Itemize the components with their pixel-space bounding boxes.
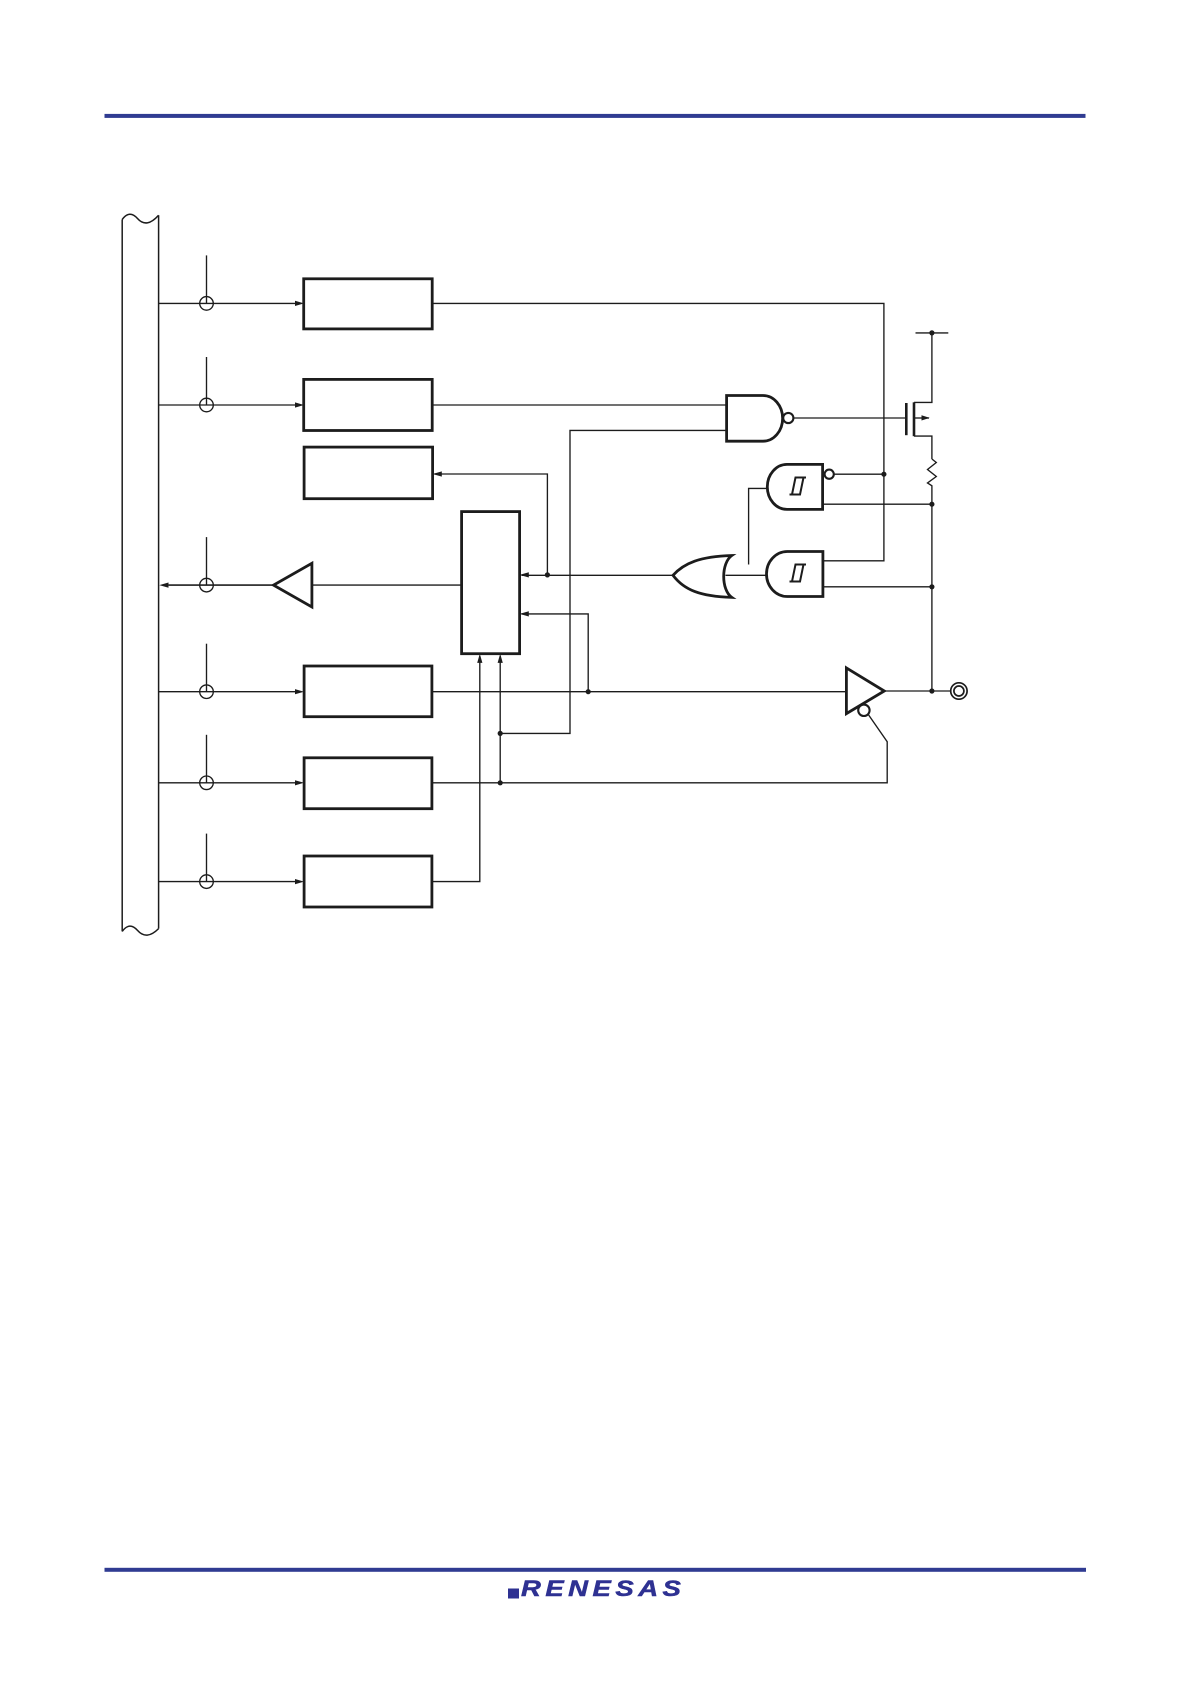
svg-text:RENESAS: RENESAS bbox=[521, 1577, 685, 1602]
